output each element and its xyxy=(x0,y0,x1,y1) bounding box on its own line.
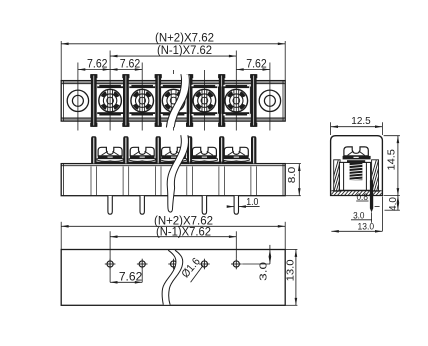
barrier wall W5 (top view) xyxy=(218,74,225,127)
hidden wall edge lines W1 (front view) xyxy=(91,166,97,195)
dimension 7.62 pitch left-b (top view) xyxy=(110,59,142,71)
terminal clamp plate P2 (top view) xyxy=(128,85,156,116)
dimension 1.0 pin width (front view) xyxy=(229,196,260,208)
dimension 7.62 pitch right (top view) xyxy=(236,59,270,71)
screw head S1 (front view) xyxy=(95,147,125,164)
break band (top view) xyxy=(166,74,189,127)
dimension 3.0 hole offset (bottom view) xyxy=(242,245,270,281)
extension line strip right end xyxy=(284,41,286,81)
hidden wall edge lines W5 (front view) xyxy=(219,166,225,195)
centre line screw S2 xyxy=(141,63,143,131)
solder pin 2 (front view) xyxy=(140,196,144,214)
hidden wall edge lines W3 (front view) xyxy=(155,166,161,195)
screw head S5 (front view) xyxy=(221,147,251,164)
centre line right hole xyxy=(269,63,271,131)
centre line screw S1 xyxy=(109,51,111,131)
barrier wall W6 (top view) xyxy=(250,74,257,127)
solder pin 1 (front view) xyxy=(108,196,112,214)
dimension 4.0 pin length (side view) xyxy=(385,196,400,211)
solder pin 4 (front view) xyxy=(234,196,238,214)
bottom view: base plate outline xyxy=(61,250,285,306)
barrier wall W2 (front view) xyxy=(123,136,128,163)
dimension (N+2)X7.62 (top view) xyxy=(61,33,285,45)
dimension 3.0 pin offset (side view) xyxy=(351,211,372,222)
pin hole H5 (bottom view) xyxy=(231,259,242,270)
centre line screw S3 xyxy=(173,70,175,131)
dimension (N+2)X7.62 (bottom view) xyxy=(61,216,285,228)
svg-text:0.8: 0.8 xyxy=(357,192,368,203)
dimension 13.0 plate width (bottom view) xyxy=(285,250,298,306)
extension line pin hole H1 xyxy=(109,231,111,282)
screw head (side view) xyxy=(343,147,371,160)
dimension 7.62 hole pitch (bottom view) xyxy=(110,272,142,284)
mounting hole right (top view) xyxy=(259,90,280,111)
screw thread shaft (side view) xyxy=(347,160,365,180)
terminal clamp plate P1 (top view) xyxy=(96,85,124,116)
screw S4 (top view) xyxy=(193,89,216,112)
screw S2 (top view) xyxy=(131,89,154,112)
barrier wall W3 (front view) xyxy=(156,136,161,163)
pin hole H2 (bottom view) xyxy=(137,259,148,270)
svg-text:3.0: 3.0 xyxy=(353,211,364,222)
clamp frame (side view) xyxy=(339,162,370,190)
barrier wall W4 (front view) xyxy=(187,136,192,163)
hidden wall edge lines W2 (front view) xyxy=(123,166,129,195)
svg-text:(N-1)X7.62: (N-1)X7.62 xyxy=(156,227,211,239)
svg-text:(N+2)X7.62: (N+2)X7.62 xyxy=(155,33,214,45)
centre line left hole xyxy=(77,63,79,131)
barrier wall W3 (top view) xyxy=(155,74,162,127)
dimension 12.5 (side view) xyxy=(331,115,383,135)
terminal clamp plate P4 (top view) xyxy=(190,85,218,116)
hidden wall edge lines W6 (front view) xyxy=(251,166,257,195)
dimension (N-1)X7.62 (bottom view) xyxy=(110,227,236,239)
front view: housing body xyxy=(61,164,285,196)
screw head S3 (front view) xyxy=(159,147,189,164)
pin hole H4 (bottom view) xyxy=(199,259,210,270)
terminal clamp plate P5 (top view) xyxy=(222,85,250,116)
break band (bottom view) xyxy=(162,250,183,305)
break band (front view) xyxy=(167,135,188,212)
barrier wall W6 (front view) xyxy=(251,136,256,163)
screw S5 (top view) xyxy=(225,89,248,112)
barrier wall W2 (top view) xyxy=(122,74,129,127)
svg-text:7.62: 7.62 xyxy=(87,59,108,71)
svg-text:13.0: 13.0 xyxy=(285,259,297,281)
terminal clamp plate P3 (top view) xyxy=(160,85,188,116)
dimension (N-1)X7.62 (top view) xyxy=(110,45,236,57)
svg-text:4.0: 4.0 xyxy=(388,197,399,211)
dimension 0.8 pin thickness (side view) xyxy=(356,192,379,206)
screw S3 (top view) xyxy=(162,89,185,112)
section hatching left wall (side view) xyxy=(328,154,388,196)
svg-text:7.62: 7.62 xyxy=(246,59,267,71)
solder pin (side view) xyxy=(370,180,373,222)
section hatching floor (side view) xyxy=(326,188,387,197)
svg-text:7.62: 7.62 xyxy=(120,59,141,71)
extension line bottom-right end xyxy=(284,222,286,250)
svg-text:(N-1)X7.62: (N-1)X7.62 xyxy=(157,45,212,57)
top view: strip body xyxy=(61,81,285,122)
mounting hole left (top view) xyxy=(67,90,88,111)
section hatching right wall (side view) xyxy=(366,154,426,196)
screw S1 (top view) xyxy=(99,89,122,112)
label diameter 1.6 with leader (bottom view) xyxy=(179,256,203,282)
extension line strip left end xyxy=(60,41,62,81)
svg-text:12.5: 12.5 xyxy=(351,115,371,127)
pin hole H3 (bottom view) xyxy=(168,259,179,270)
barrier wall W1 (top view) xyxy=(90,74,97,127)
dimension 7.62 pitch left-a (top view) xyxy=(78,59,110,71)
side view: housing section outline xyxy=(331,136,383,196)
dimension 8.0 body height (front view) xyxy=(286,164,301,196)
pin hole H1 (bottom view) xyxy=(105,259,116,270)
screw head S2 (front view) xyxy=(127,147,157,164)
solder pin 3 (front view) xyxy=(202,196,206,214)
centre line screw S5 xyxy=(235,51,237,131)
barrier wall W4 (top view) xyxy=(186,74,193,127)
svg-text:14.5: 14.5 xyxy=(386,149,398,171)
svg-text:1.0: 1.0 xyxy=(246,196,258,208)
screw head S4 (front view) xyxy=(189,147,219,164)
extension line bottom-left end xyxy=(60,222,62,250)
extension line pin hole H2 xyxy=(141,269,143,282)
svg-text:7.62: 7.62 xyxy=(119,272,143,284)
barrier wall W1 (front view) xyxy=(91,136,96,163)
dimension 14.5 (side view) xyxy=(384,136,400,196)
centre line screw S4 xyxy=(203,70,205,131)
svg-text:8.0: 8.0 xyxy=(286,167,298,184)
extension line pin hole H5 xyxy=(235,231,237,258)
svg-text:3.0: 3.0 xyxy=(258,262,270,281)
svg-text:13.0: 13.0 xyxy=(358,222,375,233)
hidden wall edge lines W4 (front view) xyxy=(187,166,193,195)
dimension 13.0 overall depth (side view) xyxy=(331,197,382,233)
barrier wall W5 (front view) xyxy=(219,136,224,163)
